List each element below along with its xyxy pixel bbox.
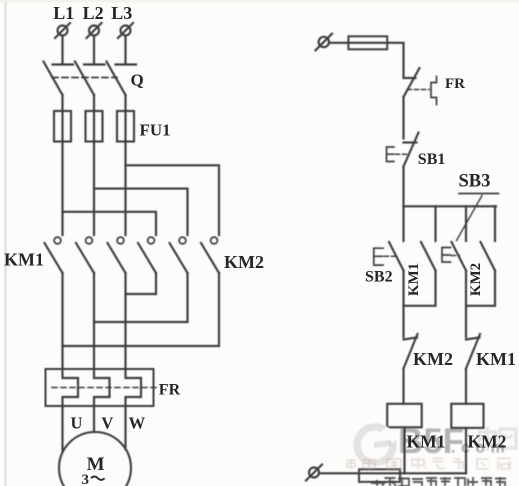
wire KM1 aux rejoin xyxy=(404,271,436,306)
wire breaker to fuse 1 and down to contact 1 xyxy=(61,95,63,235)
svg-text:KM2: KM2 xyxy=(413,349,453,369)
node L1 terminal xyxy=(55,23,70,38)
wire tap L2 to KM2 contact 5 xyxy=(94,189,188,235)
node L3 terminal xyxy=(118,23,133,38)
FR NC contact xyxy=(404,68,437,105)
KM1 NC interlock xyxy=(466,334,480,369)
wire SB1 to branch xyxy=(402,167,404,207)
svg-text:SB2: SB2 xyxy=(365,269,393,286)
node L2 terminal xyxy=(87,23,102,38)
bottom terminal xyxy=(306,465,322,481)
breaker Q pole 3 xyxy=(107,62,137,96)
scan strip top xyxy=(0,0,519,2)
drop to SB3 xyxy=(465,206,467,241)
wire coil KM1 to bottom bus xyxy=(403,427,405,473)
svg-text:Q: Q xyxy=(131,71,144,90)
svg-text:U: U xyxy=(70,414,82,433)
start button SB2 blade xyxy=(389,242,404,271)
svg-text:KM1: KM1 xyxy=(476,349,516,369)
breaker Q pole 2 xyxy=(75,62,105,96)
wire L1 to breaker xyxy=(61,36,63,65)
KM1 contact 1 xyxy=(45,237,63,273)
coil KM2 xyxy=(451,404,483,428)
control top terminal xyxy=(316,34,333,51)
wire coil KM2 to bottom bus xyxy=(465,428,467,473)
wire tap L3 to KM2 contact 6 xyxy=(126,165,220,235)
wire L2 to breaker xyxy=(93,36,95,65)
pink watermark row xyxy=(346,458,511,470)
fuse FU1 pole 1 xyxy=(54,111,71,142)
FR heater element 2 xyxy=(94,369,110,406)
svg-text:KM2: KM2 xyxy=(468,263,484,296)
watermark glyph dian xyxy=(479,427,496,451)
svg-text:KM1: KM1 xyxy=(406,263,422,296)
control fuse bottom xyxy=(359,469,400,482)
drop to SB2 xyxy=(402,206,404,241)
wire SB3 down xyxy=(465,271,467,338)
svg-text:FR: FR xyxy=(159,382,181,399)
fuse FU1 pole 3 xyxy=(117,111,134,142)
svg-text:M: M xyxy=(87,454,105,475)
svg-text:KM2: KM2 xyxy=(468,432,507,452)
wire contact1 to FR xyxy=(61,273,63,369)
wire breaker to fuse 3 and down to contact 3 xyxy=(124,95,126,235)
svg-text:FR: FR xyxy=(445,76,465,92)
wire U to motor xyxy=(61,406,63,451)
wire tap L1 to KM2 contact 4 xyxy=(63,212,157,235)
svg-text:SB1: SB1 xyxy=(418,151,446,168)
FR dashed linkage xyxy=(52,387,158,389)
FR heater element 1 xyxy=(63,369,79,406)
SB3 leader line xyxy=(457,196,483,241)
KM2 contact 6 xyxy=(201,237,219,273)
SB3 underline xyxy=(459,193,499,195)
svg-text:KM1: KM1 xyxy=(407,432,446,452)
wire terminal to fuse and corner down xyxy=(329,43,404,77)
wire SB2 down xyxy=(402,271,404,338)
scan edge band left xyxy=(5,0,7,486)
KM1 contact 2 xyxy=(76,237,94,273)
wire contact6 crossover to phase U xyxy=(63,273,220,346)
svg-text:L3: L3 xyxy=(111,3,132,23)
breaker Q linkage dashed xyxy=(52,77,117,79)
KM2 contact 5 xyxy=(170,237,188,273)
svg-text:KM2: KM2 xyxy=(224,252,264,272)
control fuse top xyxy=(348,36,387,49)
svg-text:3: 3 xyxy=(82,472,90,486)
svg-text:W: W xyxy=(129,414,146,433)
svg-text:L1: L1 xyxy=(53,3,74,23)
SB3 contact blade xyxy=(452,242,467,271)
svg-text:SB3: SB3 xyxy=(459,172,491,192)
wire breaker to fuse 2 and down to contact 2 xyxy=(93,95,95,235)
branch bus horizontal xyxy=(404,205,497,207)
FR heater element 3 xyxy=(126,369,142,406)
wire KM2 aux rejoin xyxy=(466,271,495,306)
watermark logo ring xyxy=(357,427,393,463)
drop to KM2 aux xyxy=(494,206,496,241)
wire contact2 to FR xyxy=(93,273,95,369)
KM1 aux contact blade xyxy=(421,242,436,271)
wire V to motor xyxy=(93,406,95,432)
wire interlock to coil KM2 xyxy=(465,369,467,404)
wire L3 to breaker xyxy=(124,36,126,65)
SB2 actuator E xyxy=(374,248,396,265)
KM1 contact 3 xyxy=(108,237,126,273)
wire contact3 to FR xyxy=(124,273,126,369)
bottom dark glyph row (clipped) xyxy=(371,477,506,486)
wire contact5 crossover to phase V xyxy=(94,273,188,322)
bottom bus wire xyxy=(319,472,466,474)
motor M circle xyxy=(59,432,131,486)
thermal relay FR box xyxy=(46,369,154,406)
watermark group xyxy=(357,422,516,463)
KM2 NC interlock xyxy=(404,334,418,369)
fuse FU1 pole 2 xyxy=(86,111,103,142)
KM2 contact 4 xyxy=(138,237,156,273)
wire W to motor xyxy=(124,406,126,450)
wire interlock to coil KM1 xyxy=(402,369,404,404)
drop to KM1 aux xyxy=(434,206,436,241)
wire FR to SB1 xyxy=(402,97,404,139)
SB3 actuator E xyxy=(442,248,460,263)
KM2 aux contact blade xyxy=(481,242,496,271)
coil KM1 xyxy=(387,404,422,428)
breaker Q pole 1 xyxy=(44,62,74,96)
wire contact4 crossover to phase W xyxy=(126,273,157,294)
watermark glyph wang xyxy=(500,429,516,448)
svg-text:V: V xyxy=(101,414,113,433)
svg-text:L2: L2 xyxy=(83,3,104,23)
svg-text:KM1: KM1 xyxy=(4,250,44,270)
svg-text:FU1: FU1 xyxy=(140,121,171,140)
stop button SB1 xyxy=(387,133,419,167)
